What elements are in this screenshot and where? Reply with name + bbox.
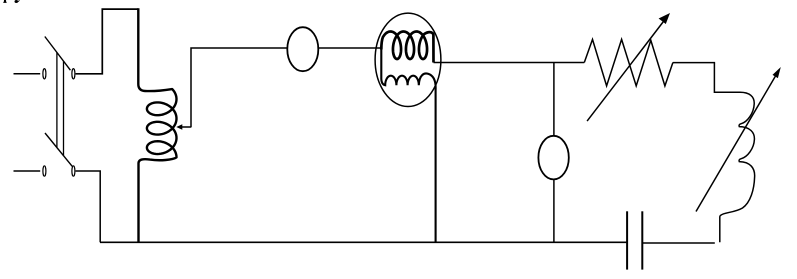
wire: C1 to L2 bottom xyxy=(642,242,715,244)
node: junction branch to meter M2 xyxy=(553,63,555,136)
capacitor C1 left plate xyxy=(626,211,628,269)
resistor R1 (variable) zigzag xyxy=(584,39,673,86)
switch S1 top blade xyxy=(45,37,71,71)
inductor L1 (tapped induction coil) xyxy=(138,8,176,242)
wire: top pole to riser and top jog over xyxy=(76,9,139,74)
cropped figure-caption text remnant 2 xyxy=(14,0,19,3)
switch S1 bottom blade xyxy=(45,133,72,166)
T1 secondary winding (bottom) with lead to bus xyxy=(381,46,435,242)
inductor L2 (variable, antenna loading coil) xyxy=(714,63,754,243)
capacitor C1 right plate xyxy=(641,211,643,269)
switch S1 contact terminal (bottom pole, right) xyxy=(72,166,75,176)
wire: M1 to oscillation transformer xyxy=(318,47,381,49)
wire: T1 output to resistor R1 xyxy=(434,62,585,64)
meter M2 (hot-wire ammeter) xyxy=(538,136,568,180)
bottom bus wire xyxy=(100,241,627,243)
wire: M2 to bottom bus xyxy=(553,179,555,242)
wire: tap riser to top bus xyxy=(191,48,287,127)
wire: bottom pole down to bus xyxy=(76,171,101,242)
wire: top-left input lead xyxy=(14,73,41,75)
switch S1 contact terminal (bottom pole, left) xyxy=(43,166,46,176)
oscillation transformer T1 enclosure (circle) xyxy=(375,13,441,106)
meter M1 (ammeter) xyxy=(287,27,318,71)
arrow over R1 xyxy=(587,13,670,121)
wire: R1 to inductor L2 xyxy=(673,62,715,64)
T1 primary winding (top helix) xyxy=(381,32,433,63)
wire: bottom-left input lead xyxy=(14,170,41,172)
cropped figure-caption text remnant 1 xyxy=(3,0,7,3)
switch S1 contact terminal (top pole, right) xyxy=(72,69,75,79)
switch S1 mechanical link (double bar) xyxy=(57,52,64,155)
arrow over L2 xyxy=(696,67,781,212)
switch S1 contact terminal (top pole, left) xyxy=(43,69,46,79)
tap arrow into L1 xyxy=(176,124,191,130)
